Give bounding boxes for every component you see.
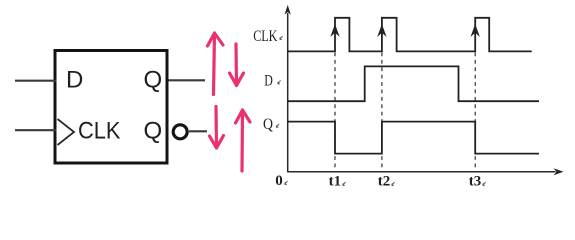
clock edge arrow t1 — [330, 24, 339, 37]
y-axis arrowhead — [285, 5, 291, 15]
return mark after t3 — [483, 182, 486, 186]
return mark after Q label — [276, 124, 279, 128]
x-axis arrowhead — [554, 168, 564, 175]
svg-text:Q: Q — [144, 67, 163, 94]
x-axis (time) — [288, 171, 556, 173]
svg-text:0: 0 — [275, 173, 283, 189]
inversion bubble — [173, 125, 187, 139]
clock edge arrow t3 — [471, 24, 480, 37]
wire Q output — [169, 79, 206, 81]
wire Q-bar output — [189, 130, 207, 132]
svg-text:t2: t2 — [378, 174, 391, 190]
wire CLK input — [15, 129, 57, 131]
y-axis — [287, 13, 289, 172]
return mark after CLK — [280, 36, 283, 40]
svg-text:t1: t1 — [329, 174, 342, 190]
Q waveform — [288, 122, 539, 154]
svg-text:t3: t3 — [469, 174, 482, 190]
return mark after t2 — [392, 182, 395, 186]
dashed line t3 — [474, 53, 476, 170]
annotation arrow up (top pair) — [208, 33, 224, 95]
D waveform — [288, 66, 539, 101]
CLK waveform — [288, 18, 532, 52]
dashed line t1 — [334, 53, 336, 170]
return mark after 0 — [285, 181, 288, 185]
svg-text:CLK: CLK — [78, 118, 121, 145]
annotation arrow up (bottom pair) — [236, 110, 251, 171]
wire D input — [15, 80, 57, 82]
dashed line t2 — [381, 53, 383, 170]
clock edge triangle — [58, 119, 75, 145]
svg-text:D: D — [66, 67, 83, 94]
D flip-flop U1 body — [55, 51, 167, 164]
svg-text:Q: Q — [263, 116, 273, 133]
svg-text:CLK: CLK — [253, 28, 278, 45]
annotation arrow down (top pair) — [230, 44, 244, 86]
annotation arrow down (bottom pair) — [210, 107, 224, 149]
return mark after t1 — [343, 182, 346, 186]
svg-text:Q: Q — [144, 118, 163, 145]
clock edge arrow t2 — [377, 24, 386, 37]
svg-text:D: D — [264, 72, 273, 89]
return mark after D label — [278, 80, 281, 84]
